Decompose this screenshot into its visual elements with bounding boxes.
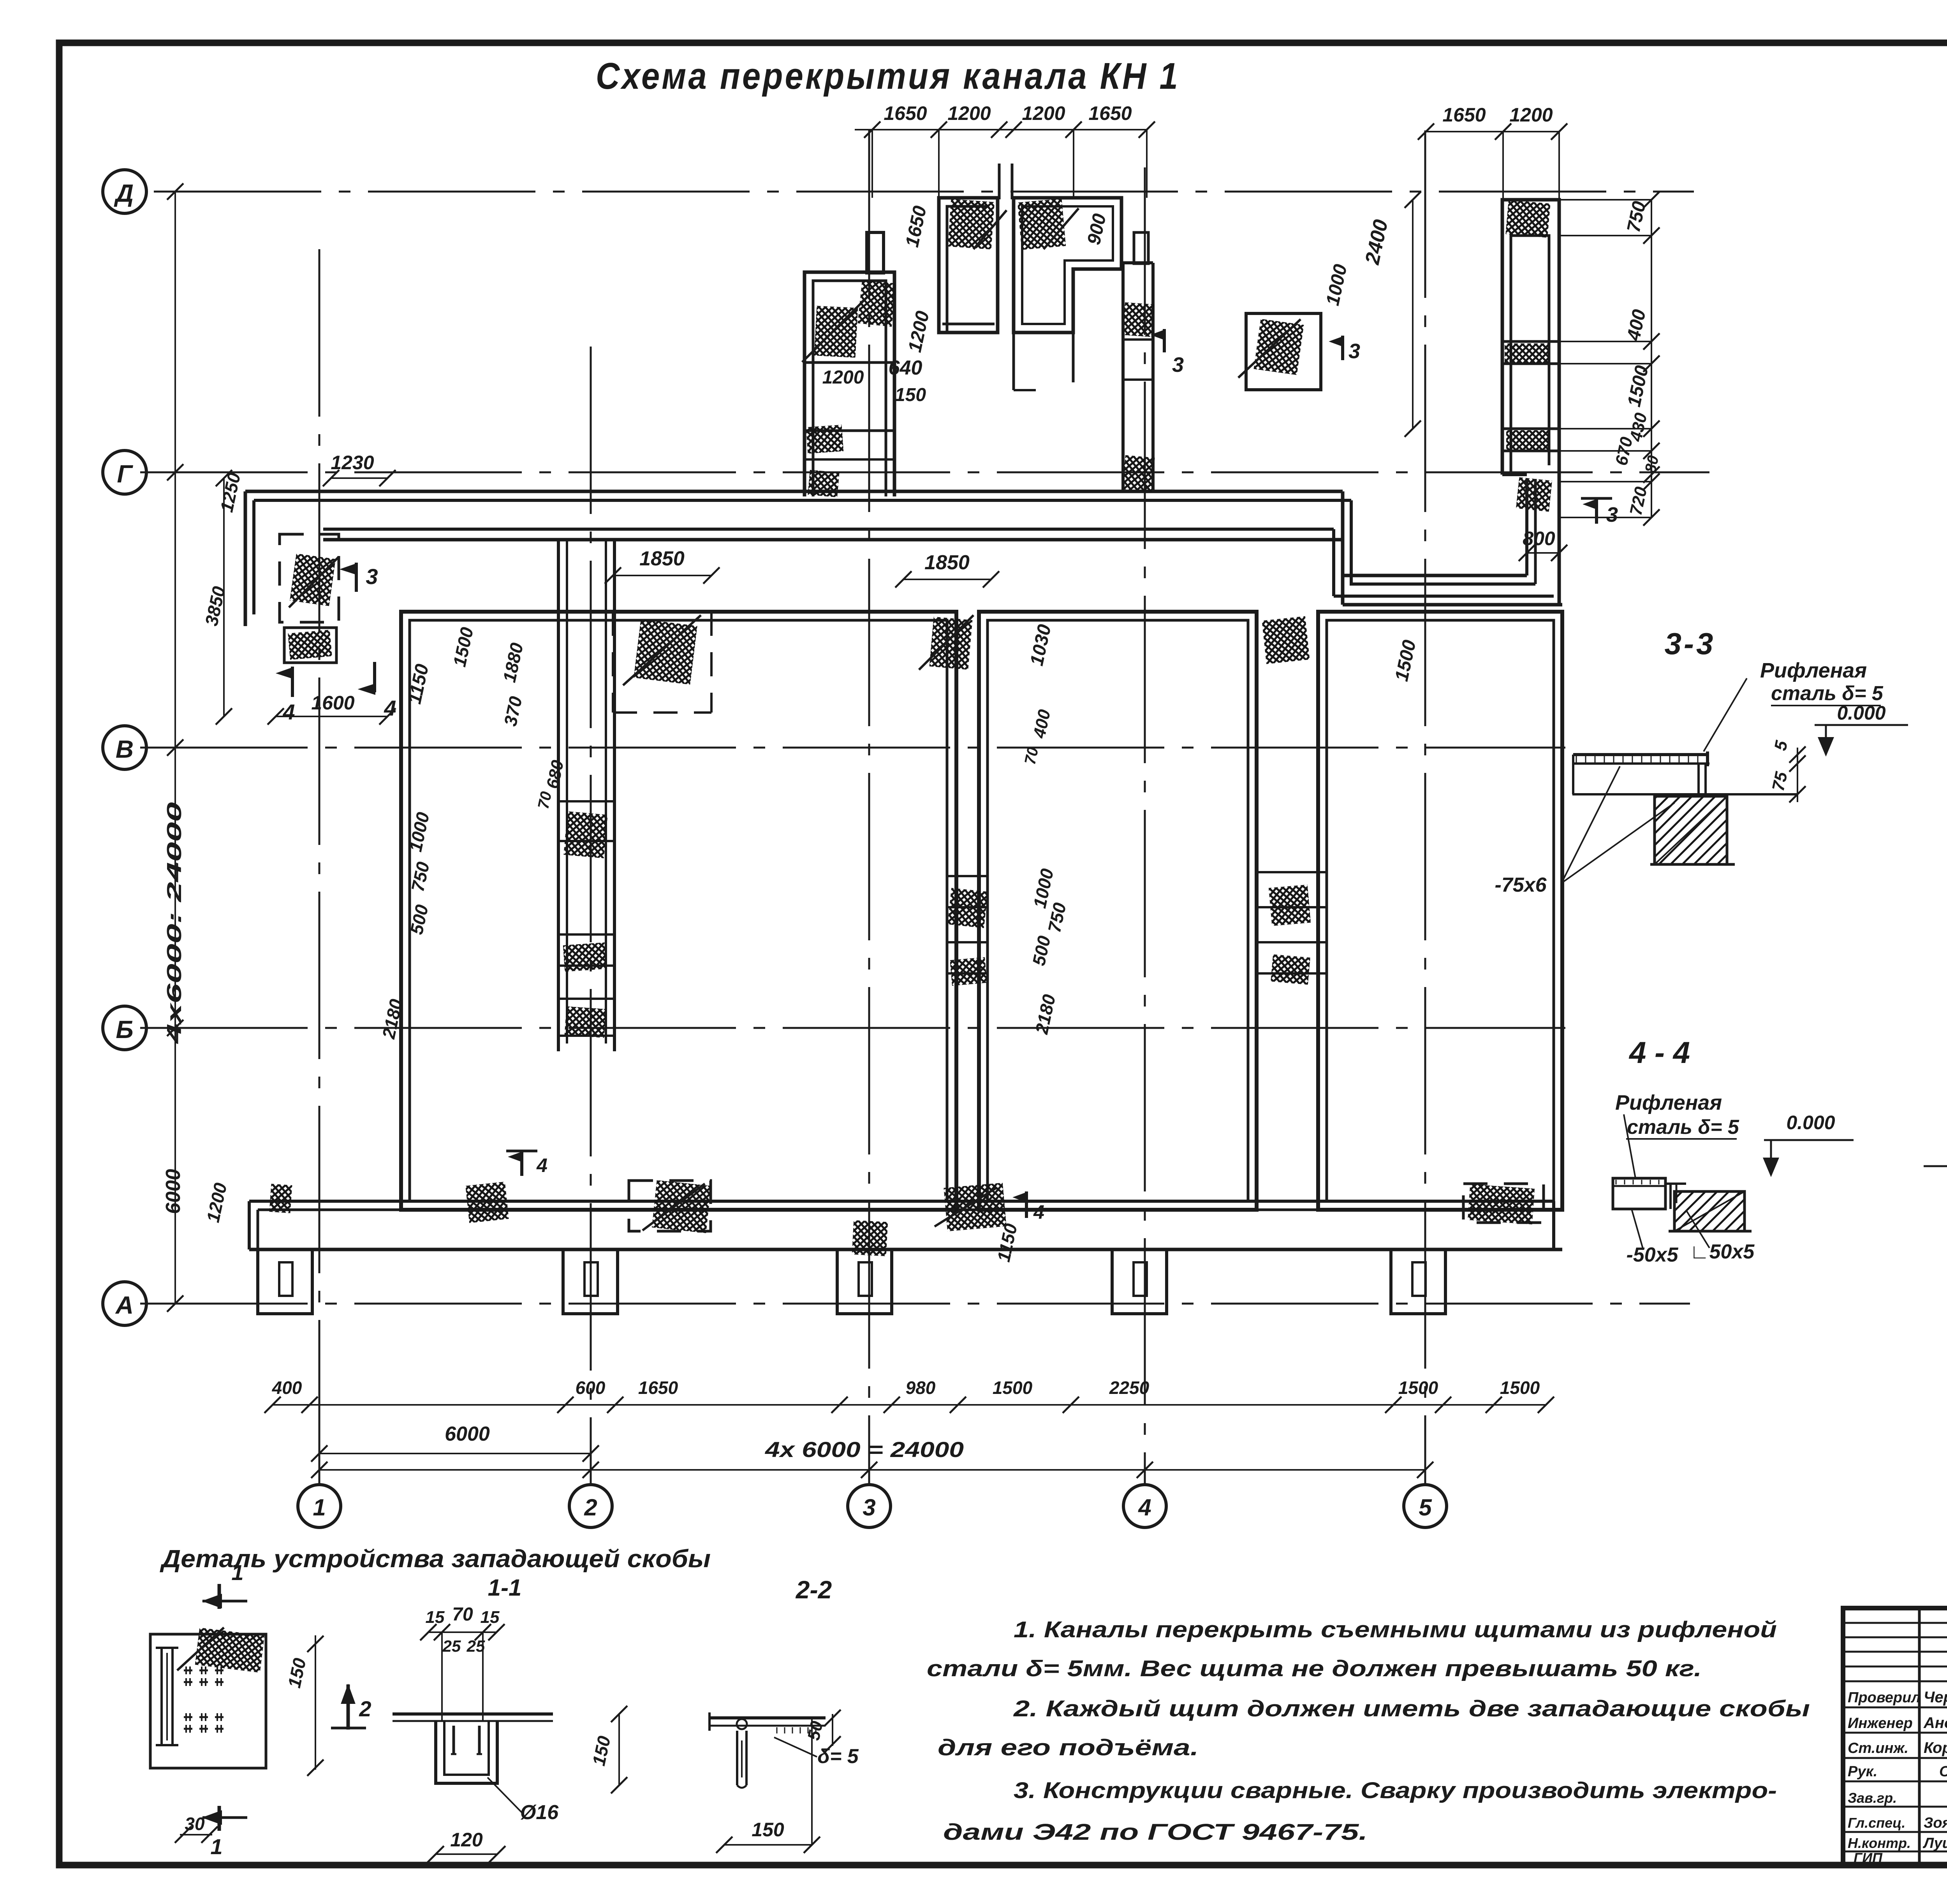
tall tower hatch 2 [1505,343,1549,362]
tower L top stub [867,232,884,273]
room 2 inner wall [988,620,1248,1201]
svg-text:∟50х5: ∟50х5 [1690,1241,1755,1263]
svg-text:0.000: 0.000 [1786,1112,1835,1133]
bottom channel top wall [249,1201,1554,1210]
svg-text:1850: 1850 [639,547,685,570]
axis column 5 [1424,130,1426,1484]
svg-text:150: 150 [752,1819,784,1841]
dim 680 rotated [535,758,567,810]
svg-text:600: 600 [576,1378,606,1398]
axis line D [154,191,1694,193]
svg-text:Н.контр.: Н.контр. [1848,1835,1911,1851]
pit 1 [258,1249,312,1314]
upper box hatch [1238,319,1304,378]
detail1 mark top [202,1560,247,1609]
svg-text:Схема перекрытия канала КН: Схема перекрытия канала КН 1 [596,55,1180,97]
dim 24000 bottom [311,1437,1433,1478]
svg-text:5: 5 [1419,1494,1432,1520]
svg-text:2: 2 [584,1494,597,1520]
svg-text:4х6000: 24000: 4х6000: 24000 [163,802,186,1044]
stamp signature rows [1843,1623,1947,1851]
detail22 dim 50 [804,1710,841,1753]
top channel wall upper [245,491,1343,500]
svg-text:1: 1 [210,1834,222,1859]
bottom corner box room1 [629,1181,711,1231]
svg-text:4: 4 [1033,1201,1044,1223]
sec44 angle [1665,1184,1686,1209]
dim 1200 rotated chimney [905,309,933,354]
bottom channel right cap [1552,1201,1555,1249]
bottom hatch room3 [1468,1184,1535,1224]
note line 2 [927,1656,1702,1681]
svg-text:Ø16: Ø16 [520,1801,559,1824]
svg-text:Инженер: Инженер [1848,1715,1913,1732]
sec44 pier [1674,1191,1745,1231]
upper box right channel [1246,313,1321,390]
svg-text:3: 3 [1172,353,1184,377]
dim 4x6000 rotated [163,802,186,1044]
column circle 4 [1123,1485,1166,1527]
svg-text:Ст.инж.: Ст.инж. [1848,1740,1908,1756]
tower L inner wall [813,281,886,496]
svg-text:1200: 1200 [1022,102,1065,124]
room1 channel walls [558,540,614,1051]
bottom hatch room1 left [465,1182,509,1223]
sec44 leader text [1615,1091,1739,1178]
sec33 pier base [1650,863,1735,866]
tower L hatch low 1 [806,425,844,454]
axis circle V [103,726,146,769]
section mark 3 descent [1153,329,1184,377]
svg-text:70: 70 [1021,746,1042,766]
section mark 4 room1 [506,1151,547,1176]
detail2 mark [331,1684,371,1730]
detail11 dims top [420,1604,505,1721]
bottom corner box room3 [1463,1184,1544,1223]
pit 4 [1112,1249,1167,1314]
axis column 4 [1144,167,1146,1484]
dim 1500 rotated room1 [449,625,477,669]
tall tower cross lines [1502,341,1559,475]
descent lower hatch [1122,455,1155,492]
room1 channel hatch 1 [563,811,607,859]
bottom hatch room1 right [643,1180,711,1233]
svg-text:4: 4 [1138,1494,1151,1520]
tall tower hatch 1 [1505,200,1550,238]
sec44 level mark [1764,1112,1854,1175]
svg-text:4: 4 [384,696,396,720]
top channel lower step [1334,529,1562,605]
svg-text:120: 120 [450,1829,483,1851]
sec33 level mark [1815,702,1908,755]
chimney B inner [1022,206,1113,324]
svg-text:4: 4 [282,700,295,724]
left pit lower box [284,628,336,663]
svg-text:ГИП: ГИП [1854,1850,1883,1866]
detail1 dim 150 [284,1635,324,1776]
top dims tower [1418,104,1567,140]
svg-text:0.000: 0.000 [1837,702,1885,724]
note line 6 [943,1820,1368,1845]
label 2-2 [796,1576,832,1604]
svg-text:4: 4 [536,1154,547,1176]
tower L hatch low 2 [808,470,839,497]
top channel wall lower [323,529,1343,540]
tower L outer wall [805,272,894,496]
svg-text:3-3: 3-3 [1665,626,1716,661]
detail22 delta5 [774,1718,859,1845]
svg-text:Гл.спец.: Гл.спец. [1848,1815,1905,1831]
svg-text:1850: 1850 [924,551,970,574]
svg-text:Г: Г [117,460,133,488]
top dims chimneys [855,102,1155,138]
dim 1230 above pit [323,452,396,486]
tower L hatch main [802,296,868,362]
room 1 outer wall [401,612,956,1210]
top channel right step [1334,491,1535,584]
sec44 plate [1613,1178,1665,1209]
svg-text:1200: 1200 [947,102,991,124]
opening 1850 room1 [613,612,711,713]
axis column 2 [590,347,592,1484]
mid channel hatch 2 [950,957,987,986]
svg-text:4х 6000 = 24000: 4х 6000 = 24000 [765,1437,964,1462]
room 1 inner wall [410,620,947,1201]
svg-text:15: 15 [426,1608,445,1627]
svg-text:1: 1 [231,1560,243,1585]
svg-text:1500: 1500 [1398,1378,1438,1398]
detail11 dia16 [488,1777,559,1824]
opening 1850 hatch room1 [623,615,701,685]
svg-text:сталь δ= 5: сталь δ= 5 [1627,1116,1739,1139]
label 3-3 [1665,626,1716,661]
right channel hatch 2 [1271,954,1310,985]
room1 channel rotated dims [378,810,433,1041]
svg-text:3: 3 [1606,503,1618,526]
svg-text:70: 70 [452,1604,473,1625]
svg-text:25: 25 [442,1637,461,1655]
axis line V [140,747,1565,749]
tower dim extender [1503,132,1559,200]
pit 3 [837,1249,892,1314]
dim 1500 rotated room3 [1391,638,1420,683]
dim 1850 room2 [895,551,999,588]
dim 3850 rotated left [201,584,229,628]
tower L hatch upper right [857,280,896,327]
dim 1150 rotated bottom [993,1221,1021,1263]
tall tower hatch 4 [1516,477,1552,512]
section mark 3 tower [1581,498,1618,526]
svg-text:1: 1 [313,1494,326,1520]
svg-text:Рук.: Рук. [1848,1763,1877,1780]
svg-text:2250: 2250 [1109,1378,1150,1398]
detail22 dim 150 [716,1819,820,1853]
dim 1600 under pit [268,692,396,725]
room 3 outer wall [1318,612,1562,1210]
dim 2400 rotated [1361,218,1392,267]
svg-text:Рифленая: Рифленая [1760,659,1867,682]
bottom dims small [264,1378,1554,1413]
descent hatch [1123,302,1155,337]
detail11 dim 120 [428,1829,505,1862]
tower L dim texts [822,357,926,405]
descent walls col4 [1123,263,1153,491]
bottom channel left cap [249,1201,258,1249]
svg-text:1650: 1650 [884,102,927,124]
column circle 5 [1404,1485,1447,1527]
sec33 dims right [1769,739,1806,802]
stamp outer box [1843,1608,1947,1865]
svg-text:640: 640 [889,357,922,379]
svg-text:дами Э42 по ГОСТ 9467-75.: дами Э42 по ГОСТ 9467-75. [943,1820,1368,1845]
dim line 2400 [1405,192,1421,437]
section mark 3 box [1331,336,1360,363]
chimney B hatch [1018,199,1079,250]
mid channel hatch 1 [947,888,988,928]
note line 1 [1014,1617,1777,1642]
sec44 labels [1627,1209,1755,1266]
bottom hatch col1 [269,1184,292,1213]
svg-text:3: 3 [1348,340,1360,363]
dim 900 rotated chimney [1084,212,1111,247]
right tower dim line [1643,192,1660,526]
tall tower hatch 3 [1506,430,1550,450]
svg-text:1200: 1200 [822,367,864,388]
left pit box dashed [280,534,339,622]
svg-text:3. Конструкции сварные. Свар: 3. Конструкции сварные. Сварку производи… [1014,1778,1777,1803]
svg-text:3: 3 [366,564,378,589]
svg-text:δ= 5: δ= 5 [817,1745,859,1768]
tall tower inner [1511,236,1549,475]
dim 1030 rotated [1026,623,1055,668]
section mark 4 room2 [1015,1191,1044,1223]
detail11 channel [436,1721,497,1783]
label 4-4 [1628,1035,1690,1070]
sec33 pier [1655,796,1727,864]
title KH1 [596,55,1180,97]
sec33 leader text [1704,659,1884,751]
sec33 plate [1573,751,1709,794]
axis circle G [103,450,146,494]
section mark 4 right [360,662,396,720]
svg-text:Коротченко: Коротченко [1924,1739,1947,1756]
dim 1650 rotated chimney [902,204,931,249]
room 2 outer wall [979,612,1257,1210]
detail11 dim 150 [588,1706,627,1793]
mid channel cross lines [947,876,988,973]
left pit cover hatch [289,553,339,607]
svg-text:1. Каналы перекрыть съемными: 1. Каналы перекрыть съемными щитами из р… [1014,1617,1777,1642]
svg-text:980: 980 [906,1378,936,1398]
rotated dims right of tower [1612,199,1662,517]
svg-text:Б: Б [116,1015,133,1044]
svg-text:1650: 1650 [638,1378,678,1398]
svg-text:Андреева: Андреева [1923,1714,1947,1732]
detail22 flange [709,1712,826,1733]
svg-text:1500: 1500 [993,1378,1033,1398]
room1 channel hatch 2 [563,942,607,971]
column circle 2 [569,1485,612,1527]
svg-text:Чернявская: Чернявская [1924,1689,1947,1706]
svg-text:1500: 1500 [1500,1378,1540,1398]
dim 1150 rotated [404,662,433,706]
bottom channel bottom wall [249,1248,1562,1251]
axis column 1 [319,249,320,1484]
room1 channel hatch 3 [565,1007,606,1038]
svg-text:6000: 6000 [162,1169,185,1214]
svg-text:Зоярченко: Зоярченко [1924,1815,1947,1831]
dim 6000 bottom [311,1423,599,1462]
note line 4 [938,1735,1199,1760]
dim 6000 rotated left [162,1169,185,1214]
note line 3 [1013,1696,1810,1721]
svg-text:Луценко: Луценко [1922,1835,1947,1851]
svg-text:Зав.гр.: Зав.гр. [1848,1790,1897,1806]
dim 1850 room1 [605,547,720,584]
svg-text:для его подъёма.: для его подъёма. [938,1735,1199,1760]
right tower dim extenders [1559,200,1651,517]
svg-text:2-2: 2-2 [796,1576,832,1604]
axis circle A [103,1282,146,1325]
svg-text:1-1: 1-1 [488,1575,522,1601]
bottom hatch room2 [935,1183,1007,1232]
svg-text:150: 150 [895,385,926,405]
detail1 bracket [156,1648,178,1745]
section mark 3 at pit [342,563,378,592]
descent cross lines [1123,340,1153,380]
svg-text:сталь δ= 5: сталь δ= 5 [1771,682,1884,705]
sec33 slab line [1572,793,1797,795]
detail11 flange [393,1714,553,1721]
dim 1000 rotated box [1322,262,1351,308]
dim 800 channel [1519,528,1567,561]
svg-text:А: А [115,1291,134,1319]
sec33 75x6 label [1495,766,1675,896]
svg-text:2: 2 [359,1696,371,1721]
left dim line 24000 [167,183,183,1312]
detail header [160,1545,711,1573]
chimney A gap walls [999,164,1012,199]
mid channel rotated dims [1028,867,1070,1036]
dim 1250 rotated left [216,471,244,514]
dim 1200 rotated left [202,1181,231,1224]
pit 2 [563,1249,618,1314]
detail1 box [150,1634,266,1768]
label 1-1 [488,1575,522,1601]
svg-text:В: В [116,735,134,763]
pit 5 [1391,1249,1445,1314]
chimney B descent walls [1014,333,1073,390]
chimney A inner [942,206,995,333]
svg-text:4 - 4: 4 - 4 [1628,1035,1690,1070]
stamp role texts [1848,1689,1921,1866]
top channel left end cap [245,491,254,626]
svg-text:1650: 1650 [1088,102,1132,124]
detail1 mark bottom [202,1806,247,1859]
left pit lower hatch [288,630,332,660]
axis line A right [1924,1165,1947,1167]
svg-text:1600: 1600 [311,692,354,714]
channel 800 walls [1527,479,1535,584]
room 3 inner wall [1327,620,1554,1201]
svg-text:1650: 1650 [1442,104,1486,126]
svg-text:Рифленая: Рифленая [1615,1091,1722,1114]
svg-text:Проверил: Проверил [1848,1689,1921,1706]
svg-text:1230: 1230 [331,452,374,473]
section mark 4 left [278,667,295,724]
stamp signature columns [1919,1608,1947,1865]
bottom hatch pit3 [852,1220,888,1256]
svg-text:400: 400 [272,1378,302,1398]
column circle 1 [298,1485,341,1527]
chimney A hatch [948,199,1007,250]
note line 5 [1014,1778,1777,1803]
tower L cross lines [805,362,894,459]
dim 400 rotated [1021,707,1054,766]
top dim extenders [872,130,1147,198]
svg-text:-50х5: -50х5 [1627,1244,1679,1266]
sec44 pier base [1669,1230,1752,1233]
detail1 dim 30 [175,1814,218,1843]
axis line A [140,1303,1690,1305]
detail11 hooks [451,1726,482,1754]
svg-text:800: 800 [1523,528,1555,549]
svg-text:3: 3 [863,1494,875,1520]
right channel cross lines [1257,872,1327,973]
axis circle D [103,170,146,213]
svg-text:2. Каждый щит должен иметь: 2. Каждый щит должен иметь две западающи… [1013,1696,1810,1721]
opening hatch room2 [919,615,974,670]
svg-text:-75х6: -75х6 [1495,874,1547,896]
detail1 hatch [177,1628,264,1673]
dim 370 1880 rotated [499,641,527,728]
opening hatch room3 [1262,616,1310,664]
detail22 pin [737,1719,747,1729]
svg-text:1200: 1200 [1509,104,1553,126]
svg-text:6000: 6000 [445,1423,490,1445]
axis column 3 [868,130,870,1484]
svg-text:Осокин: Осокин [1939,1763,1947,1780]
axis line G [140,472,1709,473]
svg-text:стали δ= 5мм. Вес щита не: стали δ= 5мм. Вес щита не должен превыша… [927,1656,1702,1681]
axis line B [140,1027,1565,1029]
detail1 hook marks [184,1666,224,1733]
chimney B outer [1014,198,1121,333]
room1 channel cross lines [558,801,614,1036]
descent stub [1134,232,1148,264]
detail22 hook [737,1731,746,1788]
svg-text:15: 15 [481,1608,500,1627]
svg-text:70: 70 [535,790,555,811]
tall tower outer [1502,200,1559,604]
axis circle B [103,1006,146,1050]
column circle 3 [848,1485,891,1527]
stamp name texts [1922,1689,1947,1851]
left dim line 3850 [216,470,232,725]
chimney A outer [939,198,998,333]
right channel hatch 1 [1269,885,1311,926]
svg-text:Д: Д [114,179,134,207]
